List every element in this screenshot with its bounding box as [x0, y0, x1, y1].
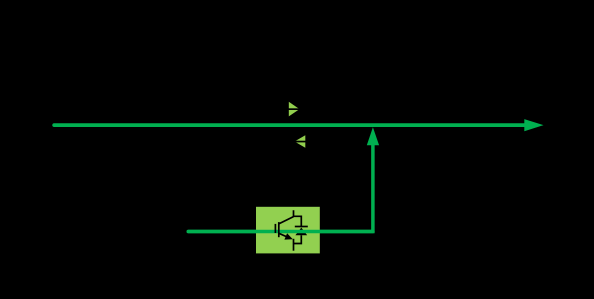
transistor Q1 (IGBT symbol strokes over wire)	[275, 210, 307, 251]
collector lead	[294, 210, 302, 226]
collector diagonal	[279, 217, 294, 224]
emitter arrow	[284, 233, 292, 239]
diode D1 (filled triangle, under wire)	[295, 228, 307, 236]
inverter block (light green box)	[256, 207, 320, 254]
wire: lower line passing through inverter box	[188, 230, 373, 234]
wire: elbow connector from inverter up to line with up arrowhead	[188, 127, 379, 231]
diode cathode bar	[295, 226, 308, 228]
emitter lead	[293, 239, 295, 251]
gate bar	[274, 224, 276, 233]
wire: main power line with right arrowhead	[54, 119, 543, 131]
body bar	[278, 222, 280, 237]
emitter diagonal	[279, 233, 290, 238]
diode-to-emitter return	[294, 235, 302, 243]
node: harmonic-current arrow (lower, pointing left)	[294, 135, 306, 147]
node: compensation-current arrow (upper, pointing right)	[288, 102, 300, 117]
